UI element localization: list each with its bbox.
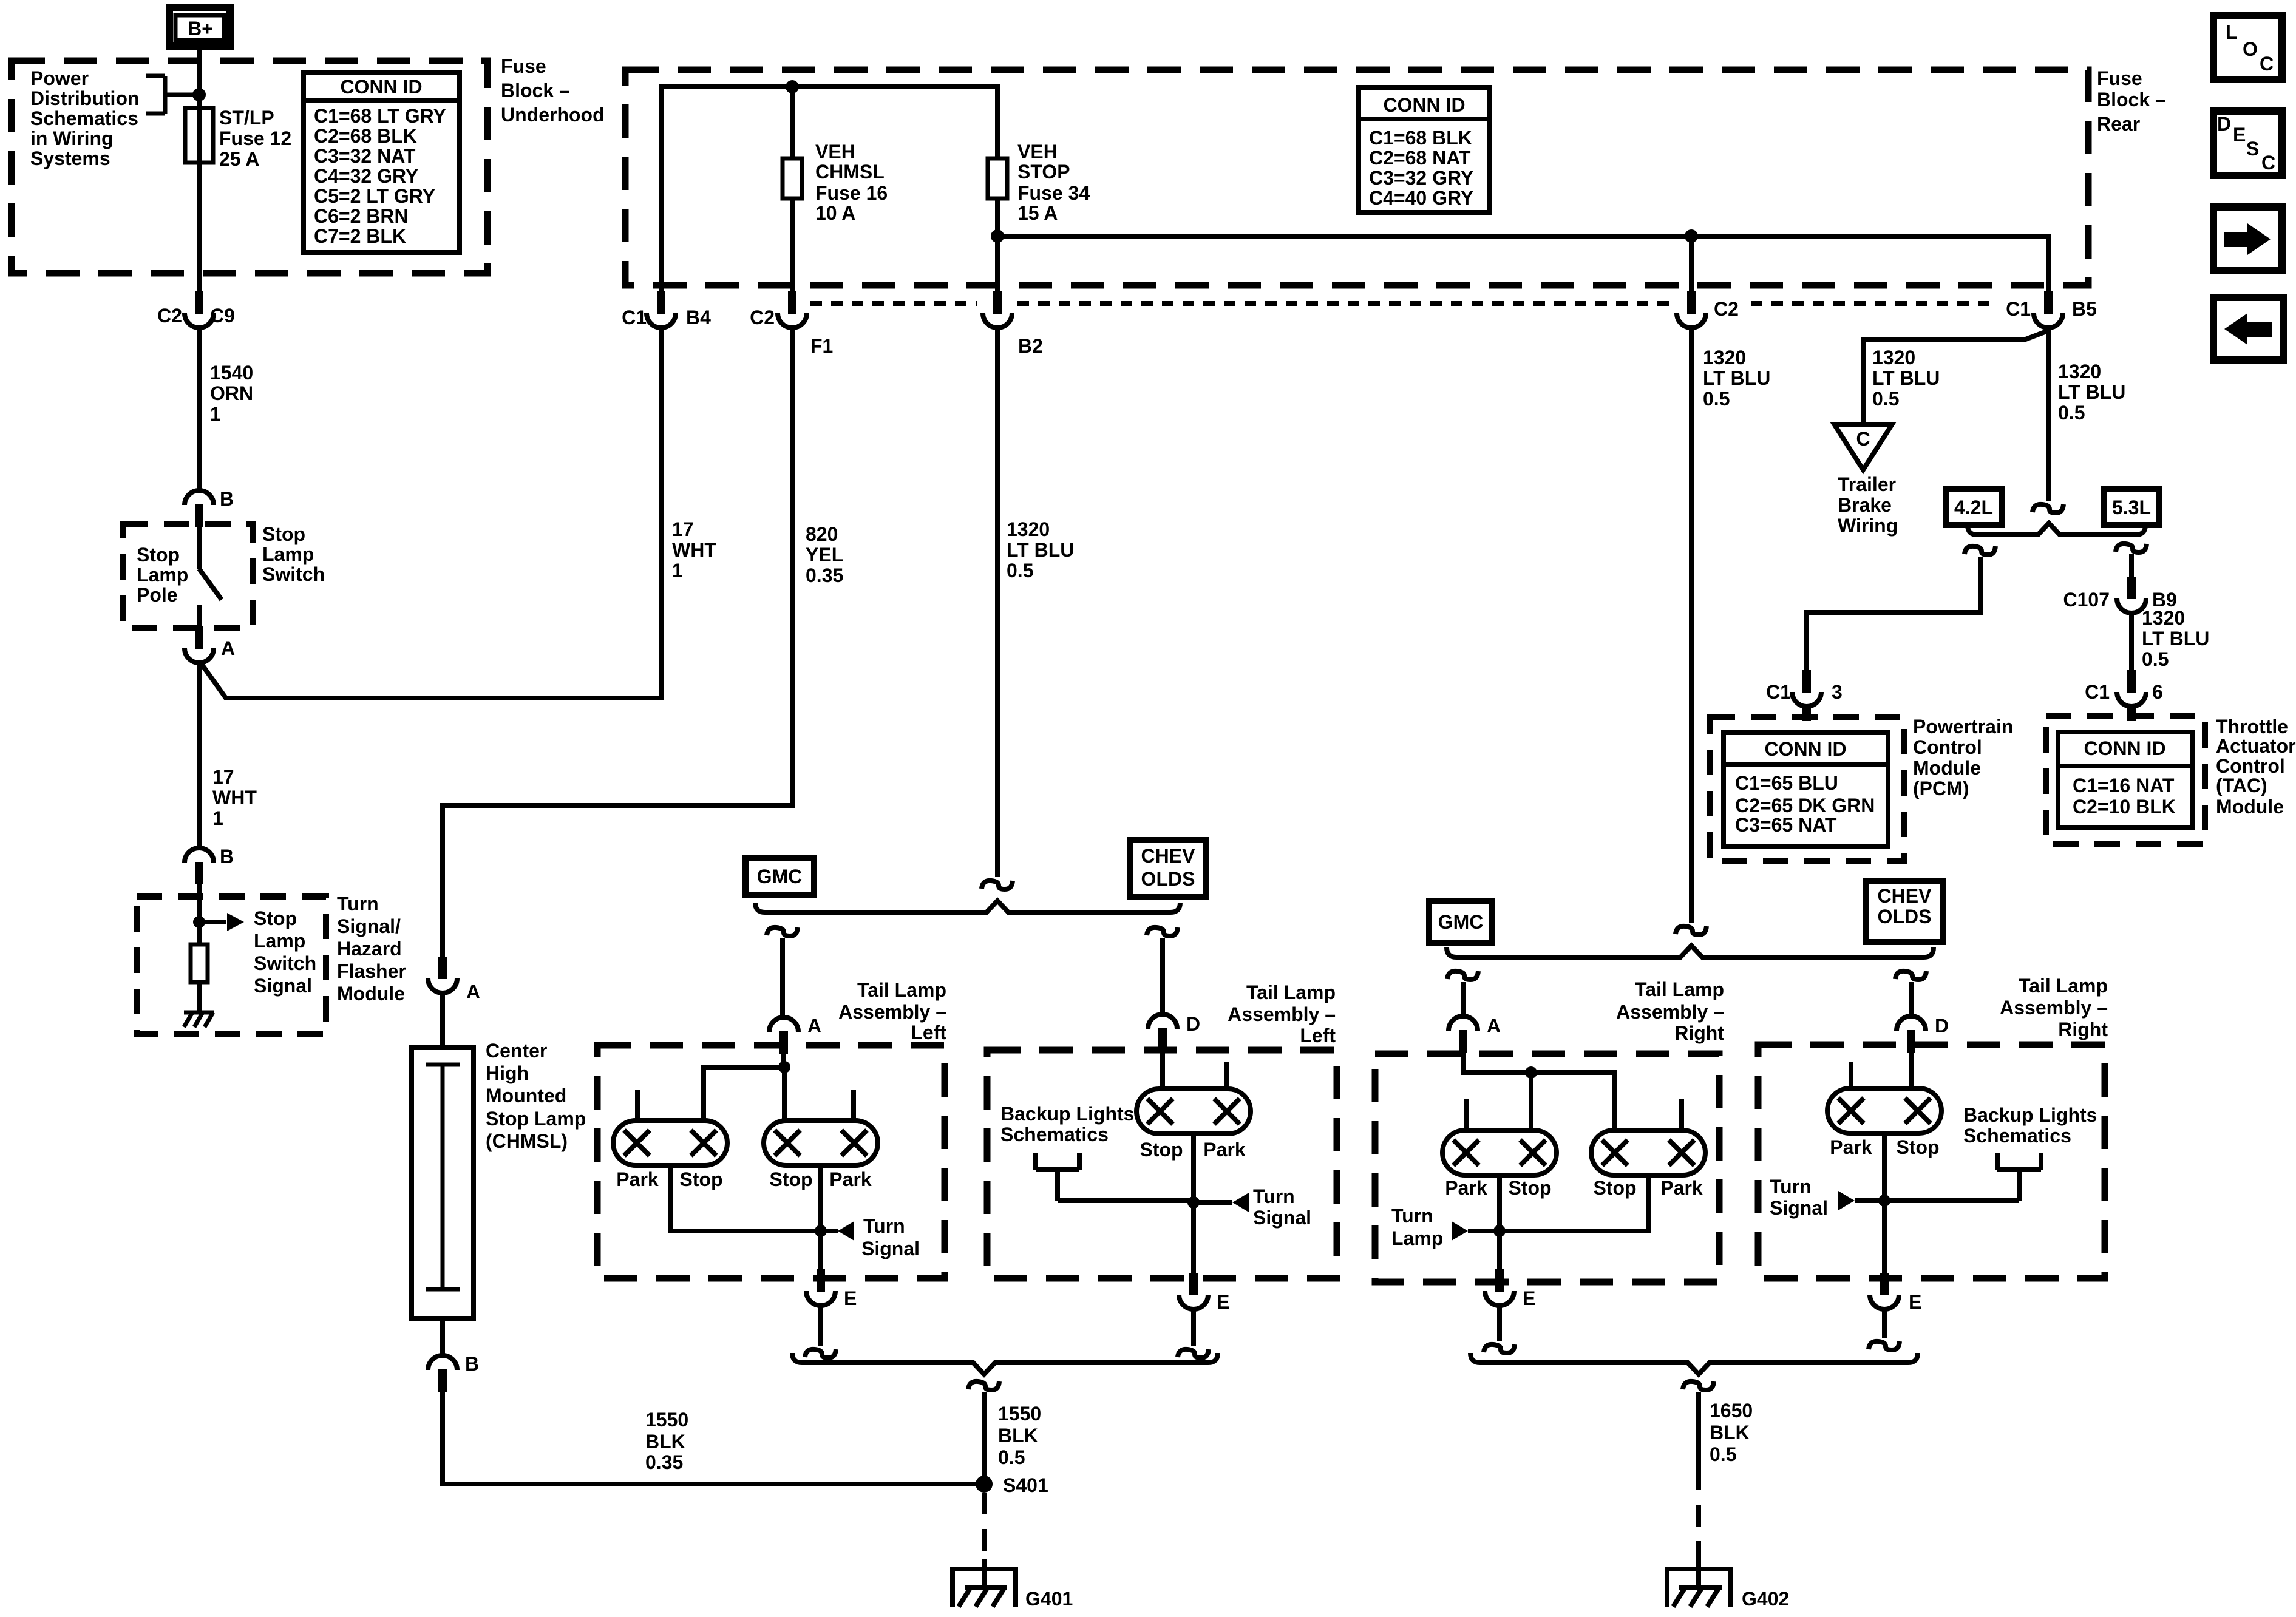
- svg-text:0.5: 0.5: [1710, 1443, 1736, 1465]
- svg-text:C5=2 LT GRY: C5=2 LT GRY: [314, 185, 435, 207]
- wire value label 1320 LT BLU 0.5: [2142, 607, 2209, 670]
- svg-text:CONN ID: CONN ID: [1383, 94, 1465, 116]
- svg-text:Park: Park: [1203, 1139, 1246, 1161]
- DESC box: [2213, 111, 2282, 175]
- wire break under brace left (4.2L branch): [1965, 546, 1995, 555]
- svg-text:Turn: Turn: [863, 1215, 905, 1237]
- svg-text:C1: C1: [2006, 298, 2031, 320]
- svg-text:Backup Lights: Backup Lights: [1963, 1104, 2097, 1126]
- junction at turn signal tap: [815, 1225, 827, 1237]
- svg-text:Power: Power: [30, 67, 89, 89]
- backup lights off-page bracket: [1036, 1153, 1194, 1201]
- svg-text:Module: Module: [1913, 757, 1981, 779]
- label: Backup Lights Schematics: [1963, 1104, 2097, 1147]
- svg-text:A: A: [466, 981, 480, 1003]
- wire: bulb returns to E: [1500, 1175, 1648, 1270]
- svg-text:VEH: VEH: [1017, 141, 1058, 163]
- svg-text:4.2L: 4.2L: [1954, 497, 1993, 518]
- wire to module ground: [197, 982, 202, 1012]
- svg-text:C2: C2: [157, 305, 182, 327]
- CONN ID table (TAC): [2058, 732, 2192, 827]
- wire down to CHEV right tail lamp D: [1909, 982, 1914, 1016]
- wire break under brace right (5.3L branch): [2116, 544, 2147, 552]
- svg-text:0.5: 0.5: [1872, 388, 1899, 410]
- wire: 4.2L branch to PCM C1 pin 3: [1807, 557, 1980, 670]
- bulb park/stop (GMC right outer): [1591, 1130, 1705, 1175]
- svg-text:Stop: Stop: [254, 907, 297, 929]
- junction at turn lamp tap: [1493, 1225, 1506, 1237]
- svg-text:YEL: YEL: [806, 544, 843, 566]
- label: Center High Mounted Stop Lamp (CHMSL): [486, 1040, 586, 1152]
- wire: B+ feed down through Fuse 12 to connector C2/C9: [197, 50, 202, 291]
- svg-text:17: 17: [212, 766, 234, 788]
- junction at fuse 16 tap: [786, 80, 799, 93]
- svg-text:B: B: [220, 846, 234, 867]
- label: Stop Lamp Switch Signal: [254, 907, 316, 997]
- svg-text:Signal: Signal: [1770, 1197, 1828, 1219]
- junction below A: [1525, 1066, 1537, 1079]
- svg-text:0.5: 0.5: [998, 1446, 1025, 1468]
- tail lamp assembly left (CHEV) dashed outline: [987, 1050, 1337, 1278]
- svg-text:C: C: [2260, 53, 2274, 75]
- connector A (stop lamp switch): [185, 626, 214, 663]
- wire break above bottom-left brace: [805, 1349, 836, 1358]
- svg-text:GMC: GMC: [757, 866, 803, 887]
- fuse F16 VEH CHMSL 10 A: [783, 158, 802, 198]
- wire: bulb return to E: [1191, 1134, 1196, 1273]
- svg-text:Trailer: Trailer: [1838, 473, 1896, 495]
- bulb park/stop (GMC left outer): [613, 1120, 727, 1165]
- node GMC (right): [1429, 901, 1492, 943]
- svg-text:A: A: [221, 637, 235, 659]
- connector A (CHMSL): [428, 957, 457, 993]
- svg-text:C2=65 DK GRN: C2=65 DK GRN: [1735, 795, 1875, 816]
- svg-text:E: E: [2233, 124, 2246, 146]
- tail lamp assembly right (CHEV) dashed outline: [1758, 1045, 2105, 1278]
- next-page arrow box: [2213, 207, 2282, 271]
- label: Powertrain Control Module (PCM): [1913, 716, 2013, 799]
- svg-text:High: High: [486, 1062, 529, 1084]
- svg-text:Turn: Turn: [337, 893, 379, 915]
- svg-text:ORN: ORN: [210, 382, 253, 404]
- bulb park/stop (CHEV right): [1827, 1088, 1941, 1133]
- svg-text:B: B: [220, 488, 234, 510]
- wire value label 1550 BLK 0.35: [645, 1409, 688, 1473]
- svg-text:B4: B4: [686, 307, 711, 328]
- connector C1/B4: [647, 291, 676, 328]
- svg-text:Lamp: Lamp: [1391, 1227, 1443, 1249]
- tail lamp assembly right (GMC) dashed outline: [1375, 1054, 1719, 1282]
- svg-text:Right: Right: [1674, 1022, 1724, 1044]
- wire below E: [1497, 1306, 1502, 1341]
- svg-text:Tail Lamp: Tail Lamp: [2019, 975, 2108, 997]
- svg-text:G401: G401: [1025, 1588, 1073, 1610]
- label: ST/LP Fuse 12 25 A: [219, 107, 291, 170]
- svg-text:Lamp: Lamp: [254, 930, 305, 952]
- svg-text:Stop: Stop: [262, 523, 305, 545]
- wire: 1320 LT BLU 0.5 branch from B5 to trailer brake wiring: [1863, 331, 2046, 425]
- connector E (CHEV right): [1870, 1273, 1899, 1309]
- svg-text:B2: B2: [1018, 335, 1043, 357]
- svg-text:Left: Left: [911, 1022, 946, 1043]
- svg-text:Turn: Turn: [1770, 1176, 1812, 1198]
- wire: 1320 LT BLU 0.5 from B5 down to engine brace: [2046, 328, 2051, 501]
- svg-text:C7=2 BLK: C7=2 BLK: [314, 225, 406, 247]
- wire below E: [1882, 1309, 1887, 1338]
- svg-text:Stop: Stop: [1593, 1177, 1636, 1199]
- svg-text:LT BLU: LT BLU: [1703, 367, 1770, 389]
- svg-text:Lamp: Lamp: [137, 564, 188, 586]
- svg-text:F1: F1: [810, 335, 833, 357]
- bulb stop/park (CHEV left): [1136, 1089, 1251, 1134]
- svg-text:(TAC): (TAC): [2216, 775, 2267, 796]
- node 5.3L: [2104, 489, 2159, 525]
- wire to park/stop bulb pins: [637, 1067, 854, 1120]
- label: Tail Lamp Assembly - Right (GMC): [1616, 978, 1724, 1044]
- svg-text:C1=68 BLK: C1=68 BLK: [1369, 127, 1472, 149]
- left tail lamp brace: [755, 901, 1180, 912]
- wire: 1320 LT BLU 0.5 from B2 down to left tail lamp brace: [995, 328, 1000, 877]
- svg-text:Tail Lamp: Tail Lamp: [1635, 978, 1724, 1000]
- wire: 1540 ORN 1 from C9 to stop lamp switch B: [197, 328, 202, 490]
- junction on B+ feed: [192, 88, 206, 101]
- svg-text:15 A: 15 A: [1017, 202, 1058, 224]
- svg-text:C1=16 NAT: C1=16 NAT: [2073, 775, 2175, 796]
- svg-text:Fuse 12: Fuse 12: [219, 127, 291, 149]
- svg-text:WHT: WHT: [672, 539, 716, 561]
- label: Fuse Block - Underhood: [501, 55, 605, 126]
- switch contact and blade: [199, 527, 222, 626]
- wire from D into lamp: [1163, 1051, 1227, 1089]
- label: Turn Lamp: [1391, 1205, 1443, 1249]
- svg-text:1320: 1320: [1703, 347, 1746, 368]
- svg-text:Control: Control: [2216, 755, 2285, 777]
- dashed wire to ground: [1696, 1468, 1701, 1566]
- svg-text:C3=65 NAT: C3=65 NAT: [1735, 814, 1837, 836]
- wire break above bottom-right brace: [1869, 1341, 1900, 1350]
- svg-text:1650: 1650: [1710, 1400, 1753, 1422]
- svg-text:OLDS: OLDS: [1141, 868, 1195, 890]
- wire below E: [818, 1306, 823, 1346]
- junction: [193, 916, 205, 928]
- svg-text:Assembly –: Assembly –: [1228, 1003, 1336, 1025]
- svg-text:0.5: 0.5: [2142, 648, 2169, 670]
- label: Turn Signal: [861, 1215, 920, 1259]
- svg-text:G402: G402: [1742, 1588, 1789, 1610]
- svg-text:1540: 1540: [210, 362, 253, 384]
- connector D (tail lamp assembly left, CHEV): [1148, 1014, 1177, 1051]
- wire below E: [1191, 1309, 1196, 1346]
- wire value label 1540 ORN 1: [210, 362, 253, 425]
- svg-text:1: 1: [210, 403, 221, 425]
- backup lights off-page bracket: [1884, 1153, 2041, 1201]
- svg-text:Systems: Systems: [30, 147, 110, 169]
- svg-text:STOP: STOP: [1017, 161, 1070, 183]
- svg-text:CHEV: CHEV: [1878, 885, 1932, 907]
- junction below A: [778, 1061, 790, 1073]
- svg-text:C107: C107: [2063, 589, 2110, 611]
- svg-text:10 A: 10 A: [815, 202, 855, 224]
- svg-text:C2: C2: [750, 307, 775, 328]
- wire: 1550 BLK 0.35 from CHMSL B to splice S401: [443, 1392, 977, 1484]
- svg-text:CHEV: CHEV: [1141, 845, 1196, 867]
- node B+ (battery positive): [169, 7, 230, 46]
- svg-text:Block –: Block –: [2097, 89, 2166, 110]
- svg-text:17: 17: [672, 518, 694, 540]
- svg-text:Tail Lamp: Tail Lamp: [1246, 981, 1336, 1003]
- svg-text:C1=65 BLU: C1=65 BLU: [1735, 772, 1838, 794]
- fuse block underhood dashed outline: [12, 61, 487, 273]
- svg-text:A: A: [807, 1015, 821, 1037]
- svg-text:C3=32 GRY: C3=32 GRY: [1369, 167, 1473, 189]
- svg-text:E: E: [1523, 1287, 1535, 1309]
- svg-text:Fuse 16: Fuse 16: [815, 182, 888, 204]
- right tail lamp brace: [1447, 946, 1934, 957]
- wire: feed bus from B4 to fuses 16 and 34: [661, 87, 997, 291]
- svg-text:Stop: Stop: [679, 1168, 722, 1190]
- flasher module dashed outline: [137, 897, 326, 1034]
- svg-text:1320: 1320: [1007, 518, 1050, 540]
- svg-text:S401: S401: [1003, 1474, 1048, 1496]
- svg-text:(CHMSL): (CHMSL): [486, 1130, 568, 1152]
- svg-text:Park: Park: [1445, 1177, 1487, 1199]
- svg-text:CONN ID: CONN ID: [340, 76, 422, 98]
- svg-text:Turn: Turn: [1253, 1185, 1295, 1207]
- connector C2/C9: [185, 291, 214, 328]
- svg-text:Backup Lights: Backup Lights: [1000, 1103, 1134, 1125]
- connector C1 pin 6 (TAC): [2117, 670, 2146, 707]
- svg-text:Turn: Turn: [1391, 1205, 1433, 1227]
- svg-text:S: S: [2246, 138, 2259, 160]
- svg-text:B5: B5: [2072, 298, 2097, 320]
- svg-text:3: 3: [1832, 681, 1843, 703]
- label: Fuse Block - Rear: [2097, 67, 2166, 135]
- connector B2: [983, 291, 1012, 328]
- fuse block rear dashed outline: [625, 70, 2088, 285]
- wire tap down to C2: [1689, 236, 1694, 291]
- CONN ID table (rear): [1359, 87, 1490, 212]
- svg-text:Brake: Brake: [1838, 494, 1892, 516]
- wire value label 820 YEL 0.35: [806, 523, 843, 586]
- svg-text:CONN ID: CONN ID: [1764, 738, 1846, 760]
- svg-text:1: 1: [672, 560, 683, 581]
- wire break above engine brace: [2033, 504, 2063, 513]
- wire break above bottom-left brace: [1178, 1349, 1209, 1358]
- wire value label 1320 LT BLU 0.5: [1703, 347, 1770, 410]
- wire: 17 WHT 1 from switch A down to flasher module B: [197, 663, 202, 848]
- svg-text:A: A: [1487, 1015, 1501, 1037]
- bottom-right ground brace: [1470, 1353, 1918, 1374]
- svg-text:Stop: Stop: [1896, 1136, 1939, 1158]
- turn lamp arrow: [1452, 1221, 1468, 1241]
- wire break above right brace: [1676, 926, 1707, 935]
- connector A (tail lamp assembly left, GMC): [769, 1017, 798, 1054]
- wire from A to bulb pins: [1463, 1053, 1682, 1130]
- junction at turn signal tap: [1187, 1196, 1200, 1209]
- svg-text:CHMSL: CHMSL: [815, 161, 885, 183]
- connector C107/B9: [2117, 577, 2146, 613]
- svg-text:ST/LP: ST/LP: [219, 107, 274, 129]
- wire: fuse 16 output to F1: [790, 198, 795, 291]
- wire tap down to fuse 16: [790, 87, 795, 158]
- svg-text:Fuse: Fuse: [2097, 67, 2142, 89]
- wire: bulb returns to E: [670, 1165, 821, 1270]
- svg-text:Pole: Pole: [137, 584, 178, 606]
- svg-text:C: C: [1856, 428, 1870, 450]
- svg-text:LT BLU: LT BLU: [2142, 628, 2209, 649]
- label: Stop Lamp Switch: [262, 523, 325, 585]
- svg-text:in Wiring: in Wiring: [30, 127, 114, 149]
- svg-text:1550: 1550: [998, 1403, 1041, 1425]
- svg-text:Wiring: Wiring: [1838, 515, 1898, 537]
- dashed wire to ground: [982, 1493, 987, 1566]
- svg-text:C2=68 BLK: C2=68 BLK: [314, 125, 417, 147]
- turn signal arrow: [1232, 1193, 1249, 1212]
- connector C2/F1: [778, 291, 807, 328]
- junction at turn signal tap: [1878, 1195, 1890, 1207]
- wire into CHMSL: [440, 993, 445, 1048]
- svg-text:Mounted: Mounted: [486, 1085, 566, 1107]
- wire: 820 YEL 0.35 from F1 to CHMSL A: [443, 328, 792, 957]
- label: Turn Signal: [1253, 1185, 1311, 1229]
- PCM dashed outline: [1710, 717, 1904, 861]
- turn signal arrow: [1838, 1191, 1855, 1210]
- svg-text:Park: Park: [829, 1168, 872, 1190]
- connector B (flasher module): [185, 848, 214, 884]
- wire down to GMC right tail lamp A: [1461, 982, 1466, 1016]
- svg-text:0.35: 0.35: [806, 564, 843, 586]
- svg-text:L: L: [2226, 21, 2238, 43]
- label: Tail Lamp Assembly - Left (GMC): [838, 979, 946, 1043]
- svg-text:Stop: Stop: [1508, 1177, 1551, 1199]
- svg-text:Module: Module: [2216, 796, 2284, 818]
- tail lamp assembly left (GMC) dashed outline: [597, 1045, 945, 1278]
- svg-text:Module: Module: [337, 983, 405, 1005]
- svg-text:0.5: 0.5: [1007, 560, 1033, 581]
- svg-text:0.35: 0.35: [645, 1451, 683, 1473]
- turn signal arrow: [838, 1221, 854, 1241]
- node GMC (left): [746, 858, 814, 895]
- svg-text:C2=10 BLK: C2=10 BLK: [2073, 796, 2176, 818]
- svg-text:(PCM): (PCM): [1913, 778, 1969, 799]
- ground G401: [950, 1559, 1018, 1607]
- svg-text:1320: 1320: [2058, 361, 2101, 382]
- label: VEH STOP Fuse 34 15 A: [1017, 141, 1090, 224]
- svg-text:O: O: [2243, 38, 2258, 60]
- svg-text:Switch: Switch: [254, 952, 316, 974]
- node CHEV OLDS (right): [1866, 881, 1943, 942]
- svg-text:Schematics: Schematics: [30, 107, 138, 129]
- turn lamp arrow line: [1468, 1229, 1500, 1233]
- junction at fuse 34 output: [991, 229, 1004, 243]
- svg-text:Park: Park: [1830, 1136, 1872, 1158]
- svg-text:E: E: [1217, 1291, 1229, 1313]
- CONN ID table (PCM): [1724, 733, 1888, 847]
- splice S401: [976, 1476, 993, 1493]
- wire: 1650 BLK 0.5 to ground: [1696, 1392, 1701, 1468]
- CONN ID table (underhood): [304, 73, 460, 253]
- module internal ground: [184, 1012, 214, 1027]
- svg-text:B+: B+: [188, 18, 213, 39]
- wire value label 1650 BLK 0.5: [1710, 1400, 1753, 1465]
- label: Turn Signal: [1770, 1176, 1828, 1219]
- bulb park/stop (GMC left inner): [764, 1120, 878, 1165]
- svg-text:VEH: VEH: [815, 141, 855, 163]
- svg-text:Signal: Signal: [1253, 1207, 1311, 1229]
- svg-text:C1=68 LT GRY: C1=68 LT GRY: [314, 105, 446, 127]
- connector C2 (rear, right): [1677, 291, 1706, 328]
- svg-text:OLDS: OLDS: [1878, 906, 1932, 927]
- wire value label 17 WHT 1: [212, 766, 257, 829]
- wire: 1320 LT BLU 0.5 from B9 to TAC C1 pin 6: [2129, 613, 2134, 670]
- svg-text:BLK: BLK: [998, 1425, 1038, 1446]
- LOC box: [2213, 16, 2282, 80]
- svg-text:Left: Left: [1300, 1025, 1336, 1046]
- svg-text:Signal/: Signal/: [337, 915, 401, 937]
- svg-text:BLK: BLK: [645, 1431, 685, 1453]
- svg-text:E: E: [844, 1287, 857, 1309]
- wire value label 17 WHT 1 (to B4): [672, 518, 716, 581]
- svg-text:Control: Control: [1913, 736, 1982, 758]
- svg-text:Signal: Signal: [254, 975, 312, 997]
- svg-text:Actuator: Actuator: [2216, 735, 2296, 757]
- svg-text:Throttle: Throttle: [2216, 716, 2288, 737]
- wire break above bottom-right brace: [1484, 1344, 1515, 1353]
- svg-text:1550: 1550: [645, 1409, 688, 1431]
- svg-text:C2=68 NAT: C2=68 NAT: [1369, 147, 1471, 169]
- svg-text:C1: C1: [622, 307, 647, 328]
- svg-text:B: B: [465, 1353, 479, 1375]
- svg-text:Tail Lamp: Tail Lamp: [857, 979, 946, 1001]
- bulb park/stop (GMC right inner): [1442, 1130, 1557, 1175]
- wire: fuse 34 output to B2 and right-hand bus: [997, 198, 2048, 291]
- wire from A into lamp: [781, 1054, 786, 1067]
- svg-text:E: E: [1909, 1291, 1921, 1313]
- svg-text:LT BLU: LT BLU: [2058, 381, 2125, 403]
- ground G402: [1665, 1559, 1733, 1607]
- svg-text:Assembly –: Assembly –: [2000, 997, 2108, 1019]
- label: Turn Signal/Hazard Flasher Module: [337, 893, 406, 1005]
- svg-text:Park: Park: [616, 1168, 659, 1190]
- svg-text:1320: 1320: [2142, 607, 2185, 629]
- svg-text:Block –: Block –: [501, 80, 570, 101]
- svg-text:Schematics: Schematics: [1963, 1125, 2071, 1147]
- wire: 5.3L branch to C107: [2129, 554, 2134, 577]
- svg-text:GMC: GMC: [1438, 911, 1484, 933]
- svg-text:Signal: Signal: [861, 1238, 920, 1259]
- svg-text:C: C: [2261, 152, 2275, 174]
- wire value label 1320 LT BLU 0.5: [1872, 347, 1940, 410]
- svg-text:Schematics: Schematics: [1000, 1124, 1109, 1145]
- svg-text:Switch: Switch: [262, 563, 325, 585]
- svg-text:C9: C9: [210, 305, 235, 327]
- wire break under brace right end: [1895, 971, 1926, 980]
- svg-text:1: 1: [212, 807, 223, 829]
- off-page connector C: trailer brake wiring: [1835, 425, 1892, 470]
- svg-text:Powertrain: Powertrain: [1913, 716, 2013, 737]
- svg-text:Stop: Stop: [137, 544, 180, 566]
- wire from D into lamp: [1851, 1053, 1911, 1088]
- wire: 1320 LT BLU 0.5 from C2 down to right tail lamp brace: [1689, 328, 1694, 923]
- signal arrow to Stop Lamp Switch Signal: [199, 920, 226, 924]
- svg-text:Assembly –: Assembly –: [838, 1001, 946, 1023]
- turn signal arrow line: [1194, 1200, 1232, 1205]
- svg-text:6: 6: [2152, 681, 2163, 703]
- wire break below brace: [968, 1381, 999, 1390]
- svg-text:Right: Right: [2058, 1019, 2108, 1040]
- wire break under brace left end: [767, 927, 798, 936]
- svg-text:CONN ID: CONN ID: [2084, 737, 2165, 759]
